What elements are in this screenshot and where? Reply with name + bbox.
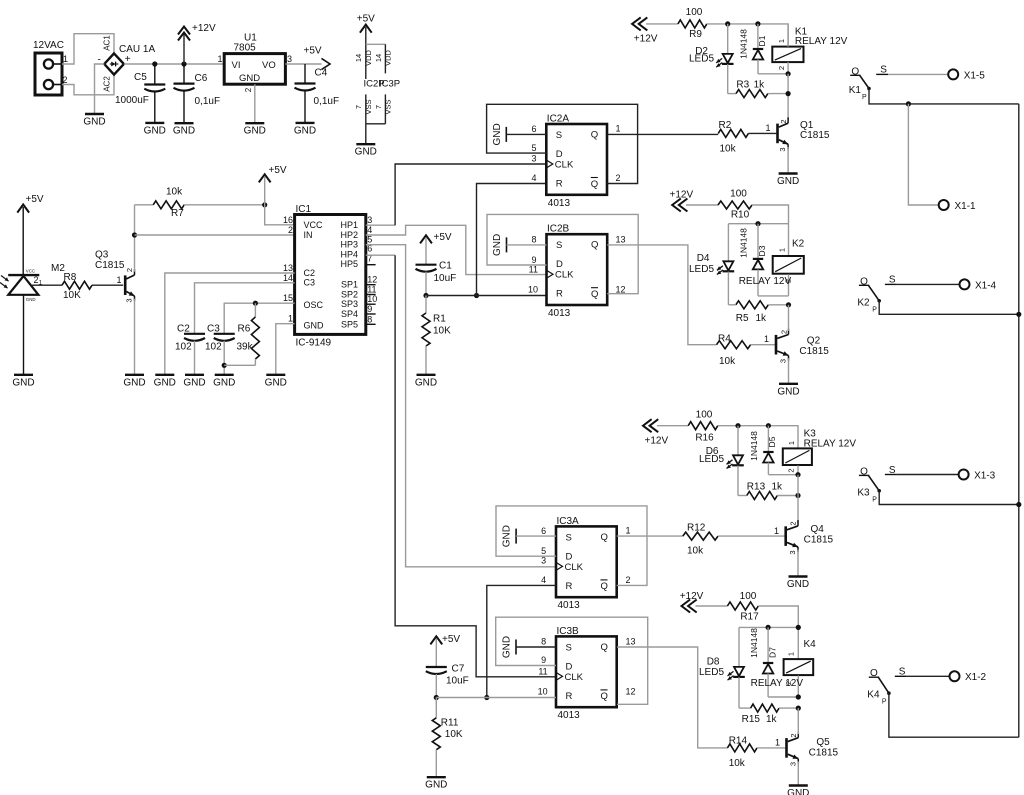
ground (Q2) [777, 384, 799, 398]
wire IC3A R to reset node [487, 585, 556, 697]
svg-text:10: 10 [538, 687, 548, 697]
flip-flop IC2B 4013 [547, 224, 608, 319]
svg-text:1: 1 [288, 314, 293, 324]
node Q3 collector / IC1 IN [132, 232, 137, 237]
svg-text:R14: R14 [729, 736, 748, 747]
svg-text:4: 4 [367, 225, 372, 235]
svg-text:D: D [566, 661, 573, 672]
ground (IC2P/IC3P) [355, 144, 377, 158]
wire IC2A S pin6 [506, 124, 546, 134]
svg-text:GND: GND [777, 176, 799, 187]
node K3 bus [1016, 502, 1021, 507]
svg-text:1000uF: 1000uF [115, 95, 149, 106]
svg-text:7805: 7805 [234, 43, 257, 54]
relay K4 RELAY 12V [751, 639, 817, 697]
svg-text:VSS: VSS [383, 99, 392, 114]
svg-text:5: 5 [541, 546, 546, 556]
svg-text:10: 10 [528, 285, 538, 295]
wire IC2A D-Qbar feedback loop [487, 104, 638, 183]
diode D1 1N4148 [739, 24, 789, 74]
ground (Q1) [777, 174, 799, 188]
wire IC2B S pin8 [507, 235, 547, 245]
svg-text:GND: GND [239, 73, 260, 84]
svg-text:R: R [556, 289, 563, 300]
svg-text:1N4148: 1N4148 [739, 228, 749, 258]
node R3 Q1 collector [786, 91, 791, 96]
svg-text:S: S [566, 532, 572, 543]
terminal X1-1 [939, 200, 976, 212]
node R7 +5V [262, 202, 267, 207]
ground symbol (IC2B S) [492, 234, 507, 256]
svg-text:3: 3 [367, 215, 372, 225]
svg-text:AC1: AC1 [103, 35, 112, 51]
svg-text:C4: C4 [315, 68, 328, 79]
svg-text:8: 8 [541, 637, 546, 647]
svg-text:4013: 4013 [548, 308, 571, 319]
svg-text:+5V: +5V [434, 232, 452, 243]
svg-text:6: 6 [541, 526, 546, 536]
svg-text:9: 9 [531, 255, 536, 265]
svg-text:R17: R17 [740, 612, 759, 623]
svg-text:4: 4 [541, 575, 546, 585]
svg-text:10k: 10k [687, 546, 704, 557]
svg-text:C5: C5 [134, 72, 147, 83]
IC2B Qbar pin12 label [616, 285, 626, 295]
svg-text:100: 100 [730, 189, 747, 200]
wire Q5 collector [797, 708, 799, 734]
svg-text:14: 14 [354, 54, 363, 62]
node D3 tap [755, 221, 760, 226]
IC2A CLK pin3 label [531, 154, 536, 164]
power +12V (K3) [643, 419, 668, 446]
svg-text:C2: C2 [177, 324, 190, 335]
IC3B Qbar pin12 label [626, 687, 636, 697]
svg-text:10k: 10k [719, 356, 736, 367]
relay K1 RELAY 12V [772, 24, 847, 74]
node D1 tap [755, 21, 760, 26]
svg-text:R3: R3 [736, 80, 749, 91]
resistor R7 10k [135, 187, 265, 220]
power +5V (C7) [430, 634, 460, 645]
svg-text:1k: 1k [756, 313, 768, 324]
svg-text:4013: 4013 [548, 198, 571, 209]
diode D3 1N4148 [739, 224, 789, 296]
capacitor C3 102 [205, 324, 235, 375]
svg-text:C3: C3 [207, 324, 220, 335]
regulator U1 7805 [217, 33, 292, 93]
wire IC3A D-Qbar feedback loop [496, 506, 647, 586]
svg-text:39k: 39k [237, 342, 254, 353]
svg-text:IC3B: IC3B [557, 626, 580, 637]
svg-text:AC2: AC2 [103, 76, 112, 92]
IC2A R pin4 label [531, 173, 536, 183]
svg-text:GND: GND [154, 377, 176, 388]
IC2B R pin10 label [528, 285, 538, 295]
power +12V (K4) [680, 591, 704, 612]
svg-text:GND: GND [502, 636, 513, 658]
resistor R3 1k [728, 80, 788, 98]
resistor R6 39k [224, 303, 259, 365]
svg-text:102: 102 [175, 342, 192, 353]
svg-text:GND: GND [425, 780, 447, 791]
svg-text:1: 1 [787, 652, 796, 656]
svg-text:P: P [872, 306, 877, 313]
svg-text:CLK: CLK [555, 270, 574, 281]
svg-text:3: 3 [778, 147, 787, 151]
svg-text:SP5: SP5 [341, 320, 358, 330]
wire IC1 pin15 OSC to C3 cap [224, 303, 294, 334]
resistor R9 100 [646, 7, 707, 40]
wire K1 pole to bus [869, 89, 1019, 104]
ground symbol (IC3B S) [502, 636, 517, 658]
svg-text:3: 3 [541, 556, 546, 566]
wire node to IC1 IN pin2 [135, 234, 295, 236]
wire HP4 pin6 to IC3B CLK [366, 255, 556, 677]
svg-text:13: 13 [283, 263, 293, 273]
svg-text:IC3A: IC3A [557, 516, 580, 527]
capacitor C4 0,1uF [295, 64, 340, 122]
IC3B R pin10 label [538, 687, 548, 697]
svg-text:100: 100 [740, 591, 757, 602]
transistor Q1 C1815 [776, 117, 830, 151]
ground (Q4) [787, 577, 809, 591]
ground (U1) [244, 123, 266, 137]
svg-text:C1815: C1815 [799, 346, 829, 357]
wire reset net 2 to IC3B R [436, 697, 556, 699]
svg-text:1: 1 [778, 248, 787, 252]
power +5V (above IC1) [259, 165, 287, 182]
svg-text:5: 5 [531, 143, 536, 153]
svg-text:R5: R5 [736, 313, 749, 324]
svg-text:IC-9149: IC-9149 [296, 338, 332, 349]
svg-text:IN: IN [304, 230, 313, 240]
svg-text:2: 2 [779, 119, 788, 123]
connector X 12VAC [33, 40, 68, 95]
svg-text:S: S [556, 130, 562, 141]
svg-text:1: 1 [626, 526, 631, 536]
wire bridge minus to ground [95, 64, 105, 113]
node R13 Q4 collector [795, 493, 800, 498]
bridge rectifier CAU 1A [98, 35, 156, 92]
svg-text:Q: Q [601, 691, 608, 702]
svg-text:3: 3 [779, 359, 788, 363]
wire U1 VO to +5V [285, 63, 321, 65]
svg-text:X1-2: X1-2 [965, 672, 987, 683]
flip-flop IC2A 4013 [546, 114, 607, 209]
svg-text:GND: GND [294, 125, 316, 136]
svg-text:K4: K4 [804, 639, 817, 650]
svg-text:C6: C6 [195, 73, 208, 84]
wire IC3B S pin8 [516, 637, 556, 648]
svg-text:VSS: VSS [364, 99, 373, 114]
wire 12VAC pin1 to bridge AC1 [62, 34, 114, 64]
transistor Q4 C1815 [784, 520, 833, 554]
svg-text:10k: 10k [720, 144, 737, 155]
svg-text:Q4: Q4 [811, 524, 825, 535]
resistor R13 1k [738, 482, 798, 500]
wire LED D3 top rail [728, 224, 788, 262]
svg-text:Q: Q [601, 532, 608, 543]
svg-text:Q: Q [591, 130, 598, 141]
svg-text:+12V: +12V [680, 591, 704, 602]
svg-text:SP4: SP4 [341, 309, 358, 319]
svg-text:10k: 10k [166, 187, 183, 198]
svg-text:C1: C1 [439, 261, 452, 272]
svg-text:S: S [556, 240, 562, 251]
svg-text:GND: GND [787, 788, 809, 795]
node C3 R6 bottom [222, 363, 227, 368]
node relay K2 pin2 / R5 / Q2 collector [786, 302, 791, 307]
power +5V (IC2P/IC3P) [357, 14, 375, 33]
svg-text:+12V: +12V [192, 23, 216, 34]
svg-text:2: 2 [784, 279, 793, 283]
svg-text:LED5: LED5 [689, 54, 714, 65]
wire IC1 pin13 C2pin to ground [165, 273, 295, 374]
ground (Q3) [123, 375, 145, 389]
IC1 pin7 HP5 stub [366, 264, 376, 266]
relay K2 RELAY 12V [739, 239, 805, 296]
resistor R11 10K [432, 698, 463, 777]
wire Q4 emitter to ground [797, 550, 799, 576]
resistor R5 1k [728, 301, 788, 324]
LED D4 LED5 [689, 253, 734, 305]
node C7 R11 [434, 695, 439, 700]
svg-text:CLK: CLK [565, 562, 584, 573]
svg-text:HP4: HP4 [340, 249, 358, 259]
svg-text:D5: D5 [767, 436, 777, 447]
svg-text:GND: GND [304, 320, 325, 330]
IC3A R pin4 label [541, 575, 546, 585]
svg-text:0,1uF: 0,1uF [314, 96, 340, 107]
svg-text:R9: R9 [689, 29, 702, 40]
wire R10 to relay K2 pin1 [752, 205, 789, 256]
svg-text:D4: D4 [697, 253, 710, 264]
svg-text:VCC: VCC [26, 269, 35, 274]
svg-text:14: 14 [374, 54, 383, 62]
switch K3 contact [857, 465, 995, 504]
svg-text:1: 1 [117, 275, 122, 285]
svg-text:GND: GND [415, 377, 437, 388]
node R15 Q5 collector [796, 706, 801, 711]
IC1 pin10 SP3 stub [366, 303, 376, 305]
svg-text:4013: 4013 [558, 710, 581, 721]
svg-text:1k: 1k [766, 714, 778, 725]
svg-text:D3: D3 [757, 245, 767, 256]
svg-text:SP3: SP3 [341, 299, 358, 309]
svg-text:Q: Q [591, 179, 598, 190]
svg-text:2: 2 [777, 66, 786, 70]
IC1 pin9 SP4 stub [366, 313, 376, 315]
LED D2 LED5 [689, 24, 734, 94]
svg-text:LED5: LED5 [689, 264, 714, 275]
svg-text:R12: R12 [687, 523, 706, 534]
svg-text:D: D [556, 149, 563, 160]
relay K3 RELAY 12V [783, 429, 857, 475]
wire R17 to relay K4 pin1 [758, 606, 798, 659]
svg-text:9: 9 [541, 655, 546, 665]
svg-text:IC3P: IC3P [379, 79, 400, 90]
svg-text:Q: Q [601, 642, 608, 653]
node D2 tap [725, 21, 730, 26]
svg-text:X1-1: X1-1 [955, 201, 977, 212]
svg-text:R15: R15 [742, 714, 761, 725]
resistor R4 10k [717, 334, 776, 368]
svg-text:R13: R13 [747, 482, 766, 493]
svg-text:GND: GND [502, 525, 513, 547]
svg-text:2: 2 [626, 575, 631, 585]
wire K3 pole to bus [879, 491, 1019, 505]
node relay K3 pin2 [795, 472, 800, 477]
svg-text:RELAY 12V: RELAY 12V [804, 438, 857, 449]
wire 12VAC pin2 to bridge AC2 [62, 75, 114, 95]
wire LED D7 top rail [739, 627, 798, 667]
svg-text:+5V: +5V [357, 14, 375, 25]
IC2P IC3P labels [364, 79, 401, 90]
svg-text:R: R [566, 581, 573, 592]
svg-text:1: 1 [616, 124, 621, 134]
wire +5V to IC1 VCC pin16 [265, 177, 295, 225]
wire IR receiver out to ground (vertical) [23, 295, 25, 374]
svg-text:3: 3 [287, 54, 292, 64]
IC IC1 IC-9149 [283, 204, 377, 349]
svg-text:CLK: CLK [565, 672, 584, 683]
wire IC3B Q pin13 to R14 [617, 637, 727, 748]
IR receiver module M2 [0, 263, 65, 302]
transistor Q3 C1815 [95, 250, 135, 303]
svg-text:1: 1 [774, 526, 779, 536]
wire Q3 emitter to ground [134, 299, 136, 374]
svg-text:Q: Q [591, 289, 598, 300]
wire Q2 collector [788, 305, 790, 331]
svg-text:VCC: VCC [304, 220, 324, 230]
svg-text:R2: R2 [719, 120, 732, 131]
flip-flop IC3A 4013 [556, 516, 617, 611]
svg-text:GND: GND [173, 126, 195, 137]
IC1 pin12 SP1 stub [366, 284, 376, 286]
svg-text:R1: R1 [433, 314, 446, 325]
svg-text:R6: R6 [238, 324, 251, 335]
IC2P power pins VSS [354, 94, 392, 143]
capacitor C6 0,1uF [174, 64, 221, 122]
svg-text:R8: R8 [64, 272, 77, 283]
ground (C2) [183, 375, 205, 389]
ground (R11) [425, 777, 447, 791]
svg-text:VO: VO [262, 60, 276, 71]
svg-text:1N4148: 1N4148 [739, 29, 749, 59]
svg-text:LED5: LED5 [699, 667, 724, 678]
svg-text:GND: GND [244, 126, 266, 137]
svg-text:14: 14 [283, 273, 293, 283]
svg-text:2: 2 [125, 268, 134, 272]
wire R9 to relay K1 pin1 [707, 24, 788, 47]
svg-text:K4: K4 [867, 690, 880, 701]
ground (C5) [144, 123, 166, 136]
resistor R15 1k [739, 704, 798, 725]
ground (bridge) [83, 114, 105, 128]
svg-text:C3: C3 [304, 278, 316, 288]
svg-text:OSC: OSC [304, 300, 324, 310]
svg-text:1N4148: 1N4148 [749, 628, 759, 658]
svg-text:13: 13 [616, 235, 626, 245]
svg-text:D: D [566, 551, 573, 562]
IC1 pin11 SP2 stub [366, 294, 376, 296]
svg-text:13: 13 [626, 637, 636, 647]
bus right vertical [1018, 104, 1020, 737]
svg-text:VDD: VDD [383, 50, 392, 66]
IC2A Qbar pin2 label [616, 173, 621, 183]
ground (IR receiver) [12, 375, 34, 389]
wire U1 GND pin to ground [254, 84, 256, 122]
svg-text:D1: D1 [757, 35, 767, 46]
svg-text:+5V: +5V [269, 165, 287, 176]
svg-text:15: 15 [283, 293, 293, 303]
svg-text:S: S [566, 642, 572, 653]
node K2 bus [1016, 312, 1021, 317]
wire IC1 pin1 GND to ground [276, 324, 295, 374]
svg-text:+5V: +5V [304, 46, 322, 57]
svg-text:GND: GND [83, 117, 105, 128]
resistor R16 100 [657, 410, 718, 444]
svg-text:C1815: C1815 [800, 130, 830, 141]
ground (R1) [415, 375, 437, 389]
wire Q1 emitter to ground [787, 147, 789, 173]
svg-text:3: 3 [789, 762, 798, 766]
resistor R10 100 [686, 189, 752, 221]
svg-text:GND: GND [492, 123, 503, 145]
svg-text:2: 2 [244, 87, 253, 92]
svg-text:R7: R7 [171, 208, 184, 219]
svg-text:IC1: IC1 [296, 204, 312, 215]
transistor Q5 C1815 [785, 732, 838, 766]
svg-text:Q2: Q2 [807, 336, 821, 347]
svg-text:K3: K3 [857, 487, 870, 498]
wire relay pin2 to Q1 collector [787, 74, 789, 120]
resistor R12 10k [683, 523, 785, 557]
wire R16 to relay K3 pin1 [718, 426, 798, 449]
LED D6 LED5 [699, 426, 744, 496]
wire IC1 pin14 C3pin to C2 cap [195, 283, 295, 334]
svg-text:1: 1 [777, 39, 786, 43]
svg-text:R: R [566, 691, 573, 702]
capacitor C5 1000uF [115, 64, 165, 122]
svg-text:2: 2 [789, 733, 798, 737]
svg-text:11: 11 [538, 667, 547, 677]
resistor R8 10K [62, 272, 92, 301]
svg-text:1: 1 [775, 738, 780, 748]
svg-text:10K: 10K [445, 729, 463, 740]
node IC2A R net [474, 293, 479, 298]
svg-text:X1-4: X1-4 [975, 280, 997, 291]
ground (IC1 pin1) [265, 375, 287, 389]
svg-text:4: 4 [531, 173, 536, 183]
switch K1 contact [849, 65, 986, 101]
wire IC3B D-Qbar feedback loop [496, 617, 648, 704]
svg-text:10uF: 10uF [434, 273, 457, 284]
svg-text:2: 2 [789, 521, 798, 525]
svg-text:RELAY 12V: RELAY 12V [751, 678, 804, 689]
svg-text:12: 12 [626, 687, 636, 697]
svg-text:1k: 1k [754, 80, 766, 91]
wire R8 to Q3 base [92, 275, 123, 285]
svg-text:IC2B: IC2B [547, 224, 570, 235]
ground (C6) [173, 123, 195, 137]
ground (C3) [213, 375, 235, 389]
ground (pin13 net) [154, 375, 176, 389]
wire IR out to R8 [31, 284, 62, 286]
svg-text:GND: GND [492, 234, 503, 256]
svg-text:GND: GND [183, 377, 205, 388]
transistor Q2 C1815 [775, 329, 830, 363]
